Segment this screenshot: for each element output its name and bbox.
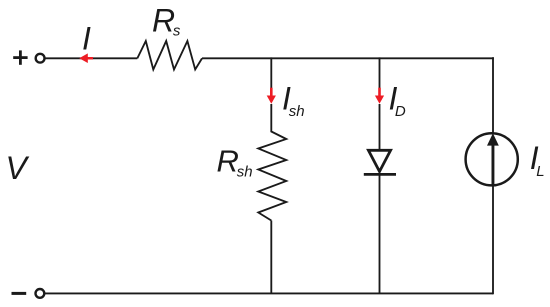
wire diode branch upper [379,57,381,96]
resistor R2 Rsh [258,104,286,221]
terminal circle bottom [36,289,45,298]
wire top left [45,57,93,59]
wire right branch upper [492,57,494,133]
svg-text:I: I [82,21,91,57]
wire top mid-left [93,57,137,59]
diode D1 [364,150,396,174]
current source U1 circle [466,133,518,185]
wire right branch lower [492,186,494,295]
svg-text:V: V [6,150,30,186]
current arrow ID (red, downward) [375,88,384,104]
current arrow I (red, leftward) [79,53,93,63]
wire diode branch lower [379,174,381,293]
resistor R1 Rs [137,41,202,70]
wire Rsh branch upper [270,57,272,96]
wire bottom [45,292,493,294]
current arrow Ish (red, downward) [267,88,276,104]
minus terminal sign [12,292,27,295]
plus terminal sign [13,50,27,64]
wire Rsh branch lower [270,221,272,294]
terminal circle top [36,54,45,63]
wire top middle [202,57,494,59]
current source arrow [487,133,499,185]
